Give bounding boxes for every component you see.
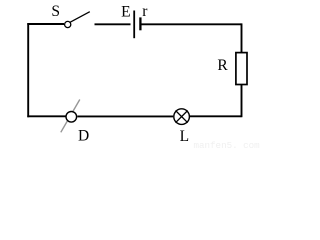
battery short thick plate — [139, 17, 141, 30]
svg-text:manfen5. com: manfen5. com — [194, 140, 261, 149]
svg-text:E: E — [121, 3, 130, 20]
lamp L — [174, 109, 190, 125]
resistor R — [236, 53, 247, 85]
component D gray diagonal — [61, 100, 80, 133]
wire right vertical upper — [241, 23, 243, 52]
battery E r : long plate — [133, 11, 135, 39]
wire switch to battery — [95, 23, 131, 25]
wire D to bottom-left corner — [27, 115, 65, 117]
svg-text:L: L — [180, 128, 189, 145]
wire top-left horizontal — [27, 23, 64, 25]
wire right vertical lower — [241, 85, 243, 118]
svg-text:r: r — [142, 3, 148, 20]
wire battery to top-right corner — [142, 23, 242, 25]
wire bottom-right horizontal — [190, 115, 242, 117]
switch S — [65, 12, 90, 28]
component D circle — [66, 112, 77, 123]
svg-text:S: S — [51, 3, 60, 20]
wire left vertical — [27, 23, 29, 117]
wire lamp to D — [77, 115, 173, 117]
svg-text:D: D — [78, 127, 89, 144]
svg-text:R: R — [217, 57, 228, 74]
